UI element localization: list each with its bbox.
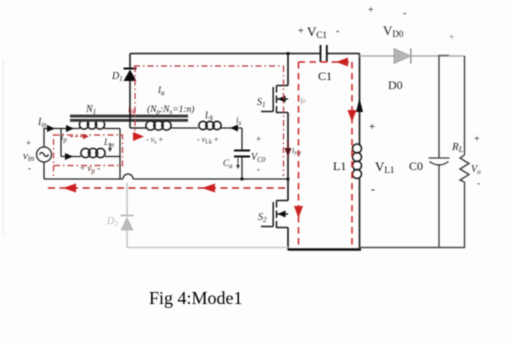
svg-text:- vLk +: - vLk + — [197, 135, 219, 146]
svg-text:L1: L1 — [333, 159, 346, 173]
mosfet S2 — [261, 201, 288, 229]
svg-text:Ca: Ca — [223, 158, 233, 170]
capacitor Ca / VC0 — [234, 128, 250, 179]
svg-text:-: - — [403, 8, 406, 19]
red dashdot loop left (around Lm) — [54, 135, 123, 176]
svg-text:Lm: Lm — [103, 137, 114, 149]
svg-text:Vo: Vo — [471, 164, 481, 176]
junction tick above C0 — [438, 55, 449, 57]
ac source Vin — [37, 147, 52, 162]
arrow isw — [285, 140, 292, 157]
svg-text:RL: RL — [451, 141, 464, 154]
svg-text:Lk: Lk — [204, 110, 214, 122]
red dashed return path bottom — [48, 187, 287, 189]
svg-text:ip: ip — [61, 132, 68, 144]
svg-text:N1: N1 — [85, 104, 96, 116]
svg-text:VC1: VC1 — [307, 24, 327, 40]
svg-text:D1: D1 — [111, 71, 123, 83]
svg-text:VC0: VC0 — [251, 152, 266, 164]
svg-text:-: - — [477, 178, 480, 188]
label VC0 — [251, 134, 266, 174]
gray top wire to D0 — [360, 55, 395, 57]
red ip mini arrow — [70, 134, 89, 139]
wire secondary to Llk — [171, 127, 198, 129]
svg-text:+ vp -: + vp - — [80, 163, 100, 175]
red dashdot path via D1 — [134, 66, 284, 176]
label Vo — [471, 134, 481, 188]
mosfet S1 — [261, 86, 288, 114]
svg-text:vin: vin — [23, 150, 34, 163]
bottom wire with hop — [44, 162, 288, 179]
svg-text:+: + — [26, 138, 31, 148]
label VL1 — [369, 121, 394, 196]
switch rail bottom — [287, 228, 289, 251]
svg-text:(Np:Ns=1:n): (Np:Ns=1:n) — [147, 104, 194, 116]
svg-text:D2: D2 — [106, 216, 118, 228]
red arrow L1 (down) — [348, 110, 357, 122]
switch rail middle — [287, 113, 289, 201]
svg-text:C0: C0 — [409, 159, 423, 173]
inductor L1 rail bottom — [359, 178, 361, 250]
primary winding Np — [79, 120, 105, 129]
label vin — [23, 138, 34, 173]
svg-text:+: + — [256, 134, 261, 144]
diode D1 — [124, 54, 147, 129]
svg-text:- vs +: - vs + — [146, 135, 164, 146]
top wire — [130, 53, 360, 55]
mosfet S2 body arrow — [278, 211, 286, 218]
svg-text:+: + — [449, 32, 454, 42]
red arrow S2 (down) — [294, 206, 303, 218]
svg-text:-: - — [257, 164, 260, 174]
svg-text:+: + — [474, 134, 480, 145]
leakage inductor Llk — [199, 121, 221, 129]
magnetizing inductance Lm winding — [81, 148, 105, 157]
red arrow top (left) — [336, 58, 348, 67]
gray inactive diode D2 branch — [121, 183, 134, 248]
output bottom wire — [360, 247, 466, 249]
svg-text:VD0: VD0 — [383, 23, 404, 39]
svg-text:S2: S2 — [258, 212, 267, 224]
svg-text:S1: S1 — [257, 97, 266, 109]
junction dots — [241, 52, 290, 180]
label +VC1- — [298, 24, 339, 40]
output capacitor C0 branch — [429, 56, 450, 248]
svg-text:VL1: VL1 — [375, 159, 394, 175]
svg-text:Iin: Iin — [37, 117, 47, 129]
svg-text:isw: isw — [292, 145, 302, 157]
arrow is (pointing left) — [230, 125, 238, 132]
red return arrow 1 — [63, 184, 76, 193]
label VD0 — [368, 5, 406, 39]
inductor L1 rail top — [359, 54, 361, 146]
secondary winding Ns — [146, 121, 171, 130]
wire primary to node B — [105, 128, 120, 130]
wire Lm to node B — [105, 156, 120, 158]
svg-text:Ia: Ia — [157, 85, 165, 97]
svg-text:+: + — [369, 121, 375, 133]
arrow into Lm — [65, 153, 73, 160]
wire source top to node A — [44, 129, 61, 148]
red dashed loop right (C1-S-L1) — [299, 62, 353, 245]
wire node A to Lm — [61, 156, 81, 158]
arrow ip — [66, 125, 74, 132]
wire node A to primary — [61, 128, 79, 130]
red arrow at secondary — [133, 132, 144, 141]
svg-text:+: + — [298, 26, 304, 37]
faint page border line — [2, 60, 4, 235]
load resistor RL branch — [460, 56, 469, 248]
bottom black rail — [288, 248, 361, 251]
svg-text:C1: C1 — [318, 69, 332, 83]
switch rail top — [287, 54, 289, 86]
transformer core — [70, 115, 188, 122]
svg-text:-: - — [371, 182, 375, 196]
svg-text:-: - — [336, 26, 339, 37]
diode D0 (inactive, gray) — [394, 49, 411, 64]
arrow iL1 up — [356, 98, 363, 112]
label Ca with down arrow — [223, 158, 240, 170]
label Lm with down arrow — [103, 137, 114, 152]
red return arrow 2 — [202, 184, 215, 193]
svg-text:+: + — [368, 5, 374, 16]
node B vertical down to bottom wire — [119, 129, 121, 180]
wire Llk to node C — [221, 127, 242, 129]
arrow Iin — [47, 125, 55, 132]
svg-text:Fig 4:Mode1: Fig 4:Mode1 — [149, 288, 243, 308]
inductor L1 — [353, 144, 362, 179]
faint vds1 marker — [297, 90, 307, 105]
mosfet S1 body arrow — [278, 96, 286, 103]
gray wire D0 to output — [411, 55, 465, 57]
capacitor C1 — [321, 45, 327, 62]
svg-text:-: - — [28, 163, 31, 173]
gray bottom return wire — [127, 247, 288, 249]
node A vertical — [60, 129, 62, 157]
svg-text:D0: D0 — [388, 78, 403, 92]
